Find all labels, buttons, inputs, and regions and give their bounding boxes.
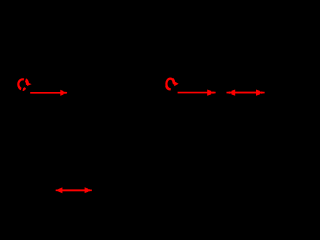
black line crossing origin symbol O (left) [21, 76, 26, 92]
black dashed vertical line over bottom arrow, right head (lower dash) [88, 191, 89, 197]
double-headed arrow (distance annotation, right) [226, 90, 264, 96]
black dashed vertical line over bottom arrow, right head (upper dash) [88, 183, 89, 189]
red shaft band of right double arrow redrawn over dashes [227, 92, 265, 94]
black dashed vertical line over bottom arrow, left head (lower dash) [58, 191, 59, 197]
black dashed vertical line over right double arrow, right head (lower dash) [260, 94, 262, 101]
double-headed arrow (distance annotation, bottom) [56, 187, 93, 193]
origin symbol O (left frame S): circular arrow [18, 79, 32, 92]
origin symbol O' (right frame S'): circular arrow [166, 79, 179, 94]
black dashed vertical line over right double arrow, left head (upper dash) [230, 85, 232, 92]
black dashed vertical line over bottom arrow, left head (upper dash) [58, 183, 59, 189]
vector arrow v (right frame), pointing right [178, 90, 217, 96]
black dashed vertical line over middle arrow head (upper dash) [211, 85, 213, 92]
black dashed vertical line over left arrow head (lower dash) [64, 94, 65, 101]
red shaft band of bottom arrow redrawn over dashes [56, 189, 92, 191]
black dashed vertical line over left arrow head (upper dash) [64, 85, 65, 92]
black dashed vertical line over middle arrow head (lower dash) [211, 94, 213, 101]
black dashed vertical line over right double arrow, right head (upper dash) [260, 85, 262, 92]
vector arrow v (left frame), pointing right [30, 90, 67, 96]
black dashed vertical line over right double arrow, left head (lower dash) [230, 94, 232, 101]
